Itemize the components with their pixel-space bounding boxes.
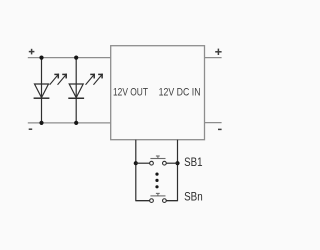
svg-text:SBn: SBn [184,192,203,204]
wire switch bus right [166,140,177,201]
wire right negative rail [205,122,222,124]
node - (right negative rail label) [218,128,222,130]
power supply unit U1 (12V OUT / 12V DC IN) [111,46,205,140]
wire SB1 right lead [166,162,177,164]
junction dot LED2 top [74,56,78,60]
wire LED2 branch [75,58,77,123]
junction dot LED1 bottom [39,121,43,125]
node - (left negative rail label) [29,128,33,130]
wire LED1 branch [41,58,43,123]
wire switch bus left [136,140,150,201]
wire SBn left lead [136,200,150,202]
pushbutton SB1 [150,156,167,165]
LED D1 emission arrows [50,74,66,84]
node + (right positive rail label) [215,49,221,55]
wire SB1 left lead [136,162,150,164]
svg-text:12V DC IN: 12V DC IN [159,86,201,98]
junction dot SB1 right [175,161,179,165]
svg-text:12V OUT: 12V OUT [113,86,148,98]
LED D2 emission arrows [86,74,102,84]
LED D1 [34,84,50,98]
junction dot LED2 bottom [74,121,78,125]
wire left negative rail [28,122,111,124]
junction dot SB1 left [134,161,138,165]
pushbutton SBn [150,193,167,202]
node ellipsis (more switches) [155,173,158,189]
wire right positive rail [205,57,222,59]
wire SBn right lead [166,200,177,202]
junction dot LED1 top [39,56,43,60]
LED D2 [68,84,84,98]
node + (left positive rail label) [29,49,35,55]
svg-text:SB1: SB1 [184,157,202,169]
wire left positive rail [28,57,111,59]
